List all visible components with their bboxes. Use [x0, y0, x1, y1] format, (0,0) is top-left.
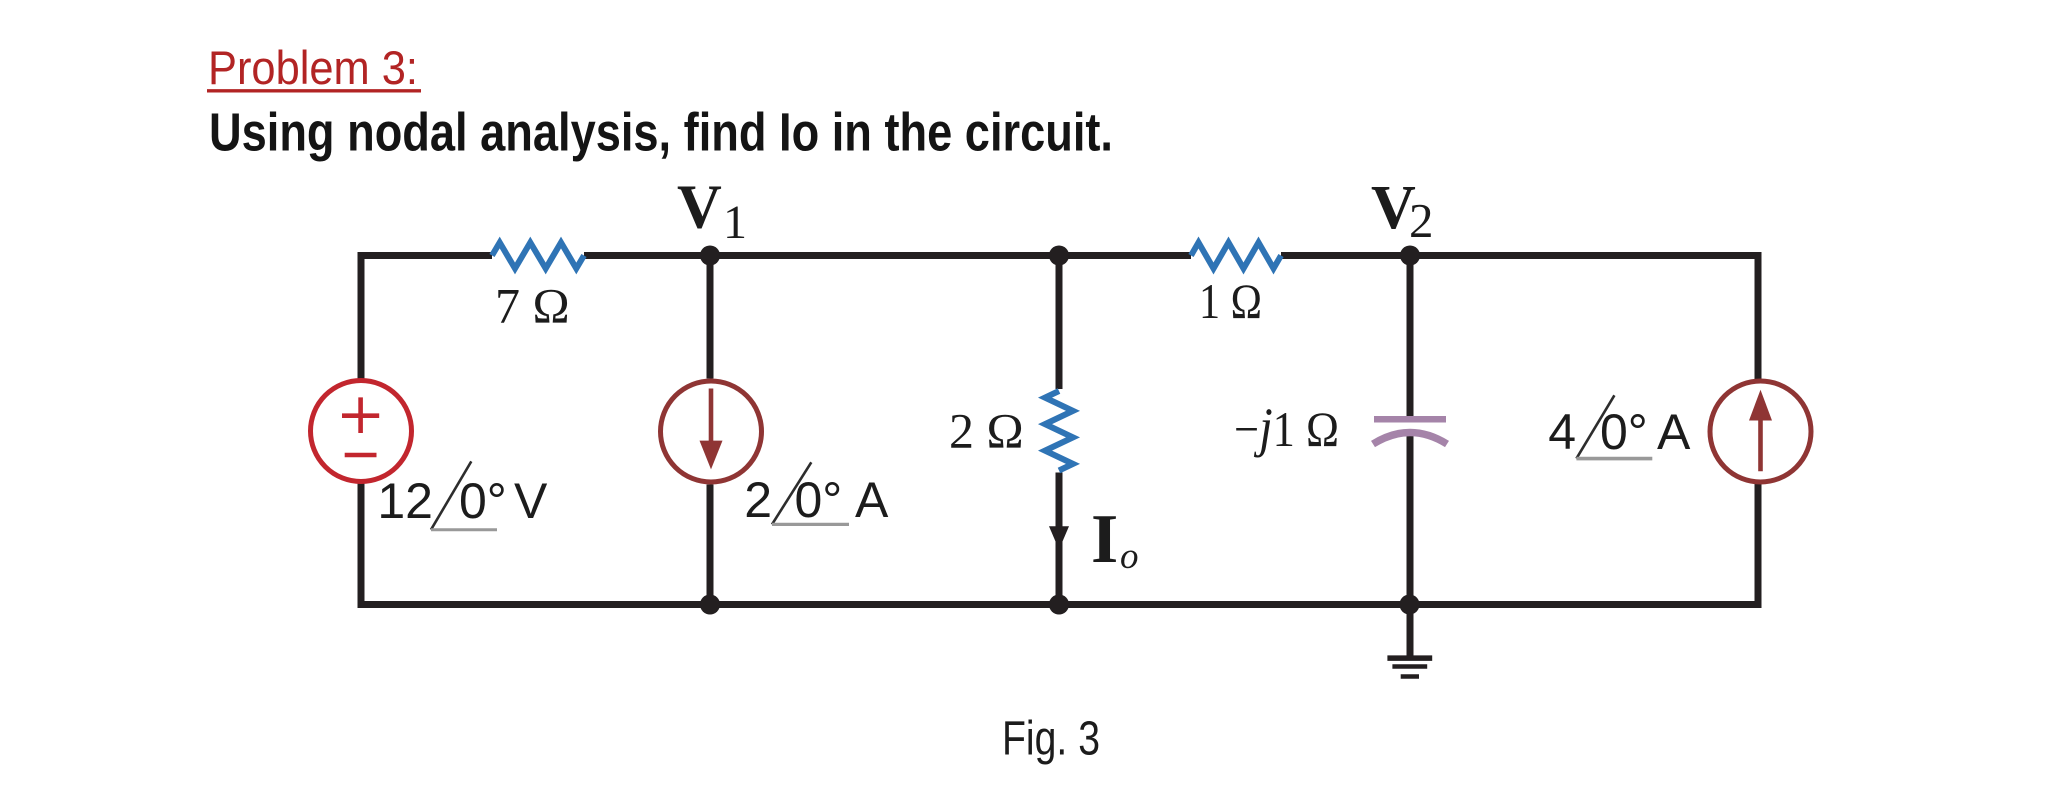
svg-text:Using nodal analysis, find Io: Using nodal analysis, find Io in the cir…	[209, 103, 1113, 163]
svg-text:Fig. 3: Fig. 3	[1002, 713, 1100, 766]
svg-text:4: 4	[1548, 404, 1576, 460]
svg-text:2: 2	[1409, 193, 1434, 248]
svg-text:Problem 3:: Problem 3:	[208, 41, 418, 94]
svg-text:0°: 0°	[795, 472, 843, 528]
svg-text:0°: 0°	[1600, 404, 1648, 460]
svg-text:V: V	[514, 473, 548, 529]
svg-text:12: 12	[377, 473, 433, 529]
svg-text:A: A	[855, 472, 889, 528]
svg-text:V: V	[677, 174, 722, 242]
svg-text:−j1 Ω: −j1 Ω	[1234, 397, 1339, 458]
svg-text:1: 1	[723, 196, 747, 249]
svg-text:o: o	[1120, 536, 1139, 577]
svg-text:7 Ω: 7 Ω	[495, 278, 570, 334]
svg-text:0°: 0°	[459, 473, 507, 529]
svg-text:I: I	[1091, 501, 1118, 578]
svg-text:A: A	[1657, 404, 1691, 460]
svg-text:1 Ω: 1 Ω	[1199, 273, 1262, 329]
svg-text:2: 2	[744, 472, 772, 528]
svg-text:2 Ω: 2 Ω	[949, 402, 1024, 458]
